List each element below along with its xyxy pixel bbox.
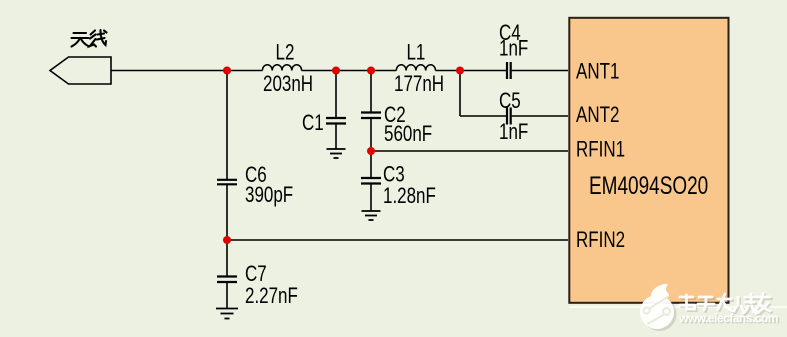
svg-text:390pF: 390pF <box>245 183 293 208</box>
wire C4 to pin ANT1 <box>512 70 568 72</box>
capacitor C7 <box>217 277 237 283</box>
svg-text:C5: C5 <box>499 89 521 114</box>
svg-text:www.elecfans.com: www.elecfans.com <box>678 311 778 325</box>
ground C1 <box>327 149 346 158</box>
svg-text:C7: C7 <box>245 262 267 287</box>
svg-text:C1: C1 <box>302 111 324 136</box>
wire to C5 <box>460 115 506 117</box>
capacitor C3 <box>361 178 381 184</box>
capacitor C5 <box>507 108 511 125</box>
capacitor C2 <box>361 113 381 119</box>
node A junction <box>223 67 231 75</box>
wire C3 to ground <box>370 184 372 212</box>
svg-text:203nH: 203nH <box>263 72 313 97</box>
IC U1 EM4094SO20 body <box>569 18 728 303</box>
svg-text:ANT2: ANT2 <box>576 103 619 128</box>
ground C7 <box>216 309 238 319</box>
capacitor C4 <box>507 62 511 79</box>
svg-text:ANT1: ANT1 <box>576 59 619 84</box>
wire node D down to C5 branch <box>459 71 461 117</box>
antenna symbol 天线 <box>50 57 111 84</box>
svg-text:177nH: 177nH <box>394 72 444 97</box>
svg-text:1.28nF: 1.28nF <box>383 184 436 209</box>
ground C3 <box>362 211 381 220</box>
inductor L2 <box>262 65 301 71</box>
wire C6 to node F <box>226 184 228 240</box>
svg-text:RFIN2: RFIN2 <box>576 228 625 253</box>
wire RFIN1 net <box>371 150 568 152</box>
wire node F down to C7 <box>226 240 228 277</box>
node B junction <box>332 67 340 75</box>
wire node A to L2 <box>227 70 262 72</box>
wire node B down to C1 <box>335 71 337 119</box>
wire node D to C4 <box>460 70 506 72</box>
wire L2 to L1 <box>302 70 397 72</box>
wire node C down to C2 <box>370 71 372 113</box>
antenna label 天线 <box>72 30 107 47</box>
svg-text:EM4094SO20: EM4094SO20 <box>589 172 708 200</box>
wire node A down to C6 <box>226 71 228 180</box>
wire RFIN2 net <box>227 239 568 241</box>
capacitor C6 <box>217 180 237 185</box>
node C junction <box>367 67 375 75</box>
wire L1 to node D <box>436 70 461 72</box>
svg-text:1nF: 1nF <box>499 36 528 61</box>
svg-text:RFIN1: RFIN1 <box>576 137 625 162</box>
node F junction <box>223 236 231 244</box>
node D junction <box>456 67 464 75</box>
wire C7 to ground <box>226 282 228 309</box>
elecfans watermark <box>569 284 787 331</box>
wire C2 to node E <box>370 118 372 178</box>
svg-text:L1: L1 <box>407 40 426 65</box>
node E junction <box>367 147 375 155</box>
wire antenna to node A <box>111 70 227 72</box>
inductor L1 <box>396 65 435 71</box>
svg-text:L2: L2 <box>276 40 295 65</box>
svg-text:2.27nF: 2.27nF <box>245 284 298 309</box>
svg-text:560nF: 560nF <box>384 122 432 147</box>
wire C5 to pin ANT2 <box>512 115 568 117</box>
svg-text:1nF: 1nF <box>499 120 528 145</box>
wire C1 to ground <box>335 124 337 150</box>
capacitor C1 <box>326 118 346 124</box>
